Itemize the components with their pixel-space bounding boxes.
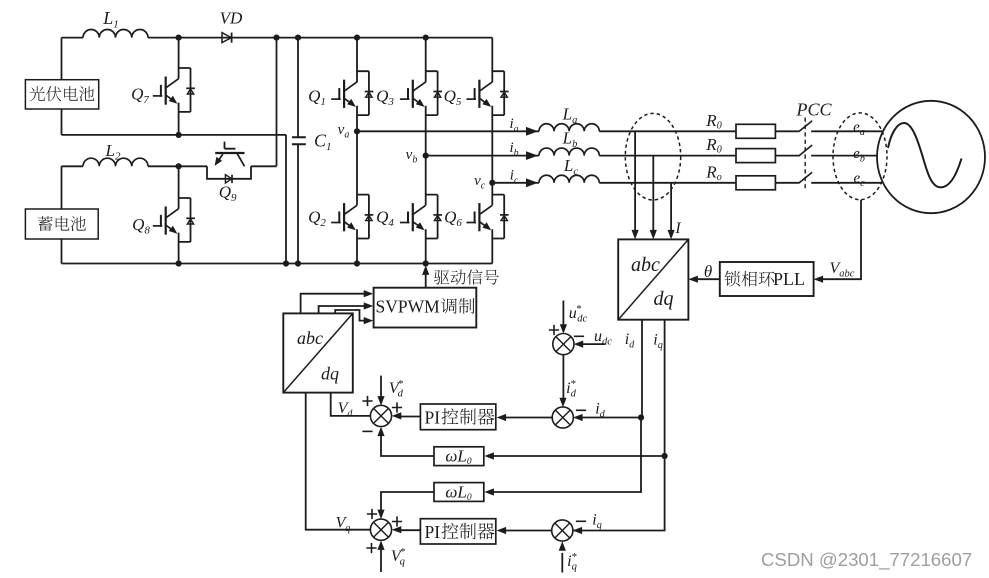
svg-text:CSDN @2301_77216607: CSDN @2301_77216607: [761, 549, 972, 571]
svg-text:Q6: Q6: [444, 208, 462, 230]
label 蓄电池: [38, 216, 86, 231]
node A dot: [176, 35, 182, 41]
wire battery top with L2 gap: [62, 165, 179, 167]
wire id into S2: [581, 417, 641, 419]
resistor R0 phase a: [736, 124, 775, 138]
arrow SVPWM input 1: [364, 290, 374, 297]
diode Q9 symbol: [225, 175, 231, 183]
svg-text:ea: ea: [853, 120, 865, 139]
wire phase a coil to resistor: [599, 130, 736, 132]
wire iq drop: [664, 320, 666, 456]
wire iq* reference: [561, 553, 563, 573]
summer S3 (iq error): [552, 520, 573, 541]
diode VD: [222, 33, 231, 43]
wire PV bottom: [62, 135, 287, 264]
svg-text:Lc: Lc: [563, 156, 578, 178]
svg-text:R0: R0: [705, 135, 721, 156]
arrow udc* into summer: [560, 324, 567, 334]
svg-text:SVPWM: SVPWM: [376, 297, 441, 317]
svg-text:Q9: Q9: [219, 183, 237, 205]
inductor L1: [83, 29, 148, 37]
wire phase a resistor to grid: [775, 130, 883, 132]
node id dot: [638, 414, 644, 420]
wire udc* reference: [562, 301, 564, 326]
wire PV left side: [61, 38, 63, 135]
svg-text:Vq: Vq: [336, 515, 351, 535]
svg-text:eb: eb: [853, 146, 865, 165]
svg-text:Q2: Q2: [308, 208, 326, 230]
svg-text:Q7: Q7: [131, 85, 149, 107]
grid source circle: [877, 101, 985, 213]
wire omegaL0-2 to SQ: [381, 492, 434, 511]
breaker switch blade phase c: [799, 172, 813, 183]
wire phase c resistor to grid: [775, 182, 882, 184]
breaker switch blade phase a: [799, 121, 813, 132]
node C1 top dot: [295, 35, 301, 41]
block abc/dq measurement: [618, 239, 688, 319]
wire battery left side: [61, 166, 63, 263]
arrow into omegaL0-1: [484, 452, 494, 459]
capacitor C1 plates: [292, 137, 306, 144]
arrow into omegaL0-2: [484, 488, 494, 495]
arrow iq* into S3: [559, 541, 566, 551]
block dq/abc modulation: [283, 313, 353, 392]
grid sine wave: [888, 123, 962, 187]
node vb dot: [423, 153, 429, 159]
wire current sense b: [652, 156, 654, 231]
sign + Vq*: [366, 543, 376, 553]
block omegaL0 1: [434, 447, 484, 466]
wire current sense a: [634, 131, 636, 231]
sign - id: [576, 409, 586, 411]
wire omegaL0-1 to SD: [381, 435, 434, 456]
svg-text:Ro: Ro: [705, 162, 721, 183]
arrow current sense a: [632, 230, 639, 240]
wire phase b resistor to grid: [775, 155, 877, 157]
wire Vq* reference: [380, 549, 382, 573]
transistor Q7: [179, 68, 191, 112]
wire S3 to PI2: [504, 530, 552, 532]
arrow SVPWM input 2: [364, 302, 374, 309]
breaker dashed line PCC: [804, 118, 806, 191]
wire phase c coil to resistor: [599, 182, 736, 184]
label 光伏电池: [30, 86, 95, 101]
wire Q9 to DC+ riser: [251, 38, 277, 167]
arrow omegaL0-2 into SQ: [377, 510, 384, 519]
wire PI1 to SD: [400, 416, 420, 418]
svg-text:id: id: [595, 401, 605, 421]
block PLL 锁相环PLL: [720, 262, 814, 296]
wire DC- bottom rail: [62, 263, 493, 265]
resistor R0 phase b: [736, 149, 775, 163]
node leg b bottom dot: [423, 260, 429, 266]
sign - omegaL0-1: [362, 430, 372, 432]
node DC+ Q9 dot: [273, 35, 279, 41]
arrow Vabc into PLL: [814, 276, 824, 283]
svg-text:vb: vb: [406, 147, 418, 166]
wire DC+ top rail with L1 coil gap: [62, 37, 493, 39]
svg-text:va: va: [338, 122, 350, 141]
transistor Q8: [179, 198, 191, 242]
svg-text:Lb: Lb: [562, 129, 578, 151]
resistor R0 phase c: [736, 176, 775, 190]
svg-text:abc: abc: [297, 328, 323, 348]
arrow iq into S3: [573, 527, 583, 534]
wire SVPWM input 2: [319, 306, 365, 313]
wire S2 to PI1: [504, 417, 553, 419]
wire SVPWM input 1: [301, 294, 365, 314]
arrow current sense b: [650, 230, 657, 240]
wire phase a inverter to coil: [357, 130, 539, 132]
wire SQ output Vq: [306, 393, 371, 530]
svg-text:PI: PI: [425, 407, 441, 427]
wire PI2 to SQ: [400, 529, 420, 531]
wire phase b coil to resistor: [599, 155, 736, 157]
svg-text:PI: PI: [425, 522, 441, 542]
label 驱动信号: [434, 269, 499, 284]
wire S1 to S2: [562, 354, 564, 399]
svg-text:Vd: Vd: [338, 400, 354, 420]
node vc dot: [489, 180, 495, 186]
arrow PI1 into SD: [392, 412, 402, 419]
node C dot: [176, 163, 182, 169]
svg-text:udc: udc: [594, 328, 612, 348]
wire drive signal: [425, 272, 427, 288]
sign + udc*: [549, 325, 559, 335]
arrow PI2 into SQ: [392, 526, 402, 533]
node leg a bottom dot: [354, 260, 360, 266]
arrow udc into summer: [574, 341, 584, 348]
svg-text:θ: θ: [704, 262, 712, 281]
wire udc feedback: [582, 343, 605, 345]
svg-text:ωL0: ωL0: [445, 447, 471, 468]
svg-text:V*d: V*d: [389, 378, 404, 400]
transistor Q1: [357, 71, 369, 115]
capacitor C1 branch: [297, 38, 299, 264]
wire Vabc from ellipse: [823, 200, 862, 280]
sign + PI1: [392, 402, 402, 412]
arrow into PI2: [497, 527, 507, 534]
svg-text:abc: abc: [631, 254, 660, 276]
sign - udc: [574, 335, 584, 337]
svg-text:Q4: Q4: [376, 208, 394, 230]
transistor Q9: [215, 152, 244, 154]
node PV- dot: [176, 132, 182, 138]
wire phase b inverter to coil: [426, 155, 539, 157]
wire inverter leg c upper: [491, 38, 493, 183]
svg-text:PLL: PLL: [773, 269, 805, 289]
wire id down to omegaL0-2: [493, 418, 642, 493]
svg-text:C1: C1: [314, 131, 332, 154]
transistor Q5: [492, 71, 504, 115]
node iq dot: [662, 453, 668, 459]
svg-text:i*d: i*d: [566, 378, 576, 400]
wire theta PLL to abc/dq: [697, 278, 720, 280]
arrow Vd* into SD: [377, 396, 384, 406]
node va dot: [354, 128, 360, 134]
wire inverter leg a upper: [356, 38, 358, 132]
node C1 bottom dot: [295, 260, 301, 266]
sign + Vd*: [362, 396, 372, 406]
transistor Q4: [426, 195, 438, 239]
label 锁相环PLL: [725, 271, 775, 287]
wire inverter leg b upper: [425, 38, 427, 156]
svg-text:I: I: [674, 220, 681, 237]
box PV cell 光伏电池: [25, 80, 98, 109]
svg-text:ωL0: ωL0: [445, 482, 471, 503]
svg-text:R0: R0: [705, 111, 721, 132]
svg-text:Q1: Q1: [308, 87, 326, 109]
transistor Q2: [357, 195, 369, 239]
wire inverter leg b lower: [425, 156, 427, 264]
wire inverter leg c lower: [491, 183, 493, 264]
svg-text:ec: ec: [853, 171, 865, 190]
wire inverter leg a lower: [356, 131, 358, 263]
wire Q8 leg: [178, 166, 180, 263]
summer S1 (dc voltage): [553, 334, 574, 355]
svg-text:dq: dq: [321, 364, 339, 384]
wire node C to Q9: [179, 165, 207, 167]
wire id drop: [641, 320, 643, 418]
svg-text:ib: ib: [510, 140, 519, 159]
arrow current ic: [526, 178, 538, 187]
sign + PI2: [392, 516, 402, 526]
svg-text:Q3: Q3: [376, 87, 394, 109]
sensor ellipse (current): [625, 113, 680, 200]
svg-text:L2: L2: [105, 141, 121, 163]
inductor L2: [83, 158, 148, 166]
svg-text:i*q: i*q: [567, 551, 577, 573]
svg-text:L1: L1: [102, 8, 119, 31]
summer SQ (Vq): [370, 519, 391, 540]
wire Vd* reference: [380, 376, 382, 398]
node Q8 bottom dot: [176, 260, 182, 266]
svg-text:iq: iq: [653, 332, 662, 352]
summer S2 (id error): [552, 407, 573, 428]
block SVPWM 调制: [374, 288, 477, 328]
box battery 蓄电池: [25, 209, 98, 239]
svg-text:La: La: [562, 104, 578, 126]
node leg b top dot: [423, 35, 429, 41]
arrow current ia: [526, 127, 538, 136]
arrow current ib: [526, 151, 538, 160]
arrow into PI1: [497, 414, 507, 421]
block PI controller 2: [420, 519, 495, 544]
transistor Q3: [426, 71, 438, 115]
breaker switch blade phase b: [799, 145, 813, 156]
svg-text:u*dc: u*dc: [569, 303, 588, 325]
summer SD (Vd): [370, 405, 391, 426]
arrow omegaL0-1 into SD: [377, 427, 384, 437]
node DC- PV dot: [283, 260, 289, 266]
svg-text:ia: ia: [510, 116, 519, 135]
svg-text:Vabc: Vabc: [830, 260, 855, 280]
block PI controller 1: [420, 404, 495, 430]
arrow theta: [688, 276, 698, 283]
svg-text:dq: dq: [654, 288, 674, 310]
svg-text:PCC: PCC: [795, 100, 832, 120]
svg-text:VD: VD: [220, 9, 243, 28]
svg-text:V*q: V*q: [391, 546, 406, 568]
grid voltage ellipse: [833, 113, 887, 200]
inductor Lc: [539, 175, 599, 183]
svg-text:Q8: Q8: [132, 215, 150, 237]
block omegaL0 2: [434, 483, 484, 502]
arrow current sense c: [668, 230, 675, 240]
svg-text:id: id: [625, 331, 635, 351]
arrow id into S2: [573, 414, 583, 421]
arrow Vq* into SQ: [377, 540, 384, 550]
svg-text:ic: ic: [510, 167, 519, 186]
wire iq to omegaL0-1: [493, 455, 665, 457]
inductor Lb: [539, 148, 599, 156]
svg-text:iq: iq: [592, 512, 601, 532]
node leg a top dot: [354, 35, 360, 41]
diode Q9 antiparallel branch: [207, 166, 251, 179]
arrow id* into S2: [559, 398, 566, 408]
svg-text:vc: vc: [474, 173, 486, 192]
wire SD output Vd: [331, 393, 371, 416]
wire current sense c: [670, 183, 672, 231]
wire iq down to S3: [573, 456, 665, 531]
svg-text:Q5: Q5: [444, 87, 462, 109]
sign + omegaL0-2: [367, 509, 377, 519]
transistor Q6: [492, 195, 504, 239]
wire Q7 leg: [178, 38, 180, 135]
arrow SVPWM input 3: [364, 317, 374, 324]
wire SVPWM input 3: [335, 310, 365, 321]
wire phase c inverter to coil: [492, 182, 539, 184]
inductor La: [539, 124, 599, 132]
sign - iq: [576, 520, 586, 522]
arrow drive signal: [422, 265, 429, 275]
